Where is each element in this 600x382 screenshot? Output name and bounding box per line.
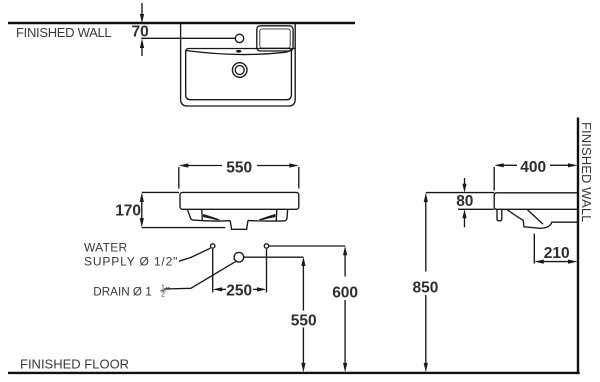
front view bowl bottom left — [194, 219, 231, 222]
svg-text:": " — [166, 284, 171, 298]
drain leader line — [164, 261, 236, 289]
plan view deck box outer (top right) — [257, 26, 293, 51]
front view trap — [230, 220, 248, 229]
drain hole circle — [234, 252, 244, 262]
dim 170 top extension line — [142, 191, 179, 193]
finished floor line — [8, 372, 580, 374]
svg-text:210: 210 — [544, 245, 570, 262]
finished wall line (top) — [8, 22, 355, 24]
svg-text:FINISHED FLOOR: FINISHED FLOOR — [20, 356, 129, 371]
svg-text:DRAIN Ø 1: DRAIN Ø 1 — [93, 285, 151, 298]
plan view faucet hole — [235, 34, 243, 42]
svg-text:FINISHED WALL: FINISHED WALL — [16, 25, 111, 40]
water supply hole left — [211, 244, 215, 248]
side view internal diagonal — [528, 210, 543, 224]
dim 850 top extension to side view — [426, 192, 494, 194]
water supply leader line — [179, 248, 211, 261]
svg-text:850: 850 — [413, 280, 439, 297]
dim 250 line with arrows — [213, 287, 267, 291]
front view bowl bottom right — [248, 219, 284, 222]
svg-text:FINISHED WALL: FINISHED WALL — [579, 122, 594, 223]
svg-text:SUPPLY Ø 1/2": SUPPLY Ø 1/2" — [84, 254, 178, 268]
dim 400 line with arrows — [494, 163, 577, 167]
water supply hole right — [264, 244, 268, 248]
dim 400 left extension line — [493, 167, 495, 191]
dim 170 vertical line with arrows — [140, 192, 144, 227]
extension line from 70 to faucet hole — [141, 37, 235, 39]
front view right foot inner edge — [275, 210, 278, 221]
dim 550 right extension line — [298, 167, 300, 189]
dim 550 left extension line — [178, 167, 180, 189]
plan view outer rim — [181, 24, 296, 107]
dimension 70 lower arrow — [140, 38, 144, 56]
dim 210 extension line — [533, 234, 535, 264]
svg-text:170: 170 — [115, 202, 141, 219]
front view slab — [180, 192, 299, 209]
plan view basin sides and bottom — [186, 49, 292, 100]
front view left foot inner edge — [201, 210, 204, 221]
plan view basin rim straight edge — [186, 49, 295, 53]
finished wall line (right) — [577, 118, 579, 375]
side view drain boss — [523, 220, 577, 228]
side view bowl underside curve — [507, 209, 524, 220]
dim 600 vertical line — [343, 246, 347, 373]
svg-text:WATER: WATER — [84, 241, 128, 255]
svg-text:550: 550 — [226, 159, 252, 176]
svg-text:2: 2 — [161, 292, 165, 299]
plan view basin front curve — [186, 49, 292, 55]
front view left foot outer edge — [188, 210, 194, 221]
plan view deck box inner line — [260, 29, 290, 48]
svg-text:80: 80 — [456, 193, 473, 210]
dim 210 line with arrows — [534, 260, 577, 264]
front view left chevron wedge — [203, 214, 219, 220]
plan view drain inner circle — [235, 66, 244, 75]
horizontal line from right supply hole to dim 600 — [269, 245, 345, 247]
dim 80 upper arrow — [462, 178, 466, 193]
dim 850 vertical line — [424, 193, 428, 373]
dim 80 lower arrow — [462, 209, 466, 227]
plan view faucet dash marker — [236, 50, 242, 53]
dim 550 line with arrows — [179, 163, 299, 167]
dim 170 bottom extension line — [142, 227, 226, 229]
side view front tab — [497, 209, 502, 221]
front view right foot outer edge — [284, 210, 288, 221]
svg-text:550: 550 — [291, 312, 317, 329]
dimension 70 upper arrow — [140, 3, 144, 24]
horizontal line from drain to dim 550 — [244, 256, 304, 258]
dim 550 vertical line — [301, 257, 305, 373]
extension line below left supply hole — [212, 249, 214, 293]
svg-text:600: 600 — [332, 284, 358, 301]
svg-text:400: 400 — [520, 159, 546, 176]
svg-text:250: 250 — [226, 283, 252, 300]
extension line below right supply hole — [266, 249, 268, 293]
side view slab — [494, 193, 577, 210]
dim 80 bottom extension line — [458, 208, 494, 210]
plan view drain outer circle — [232, 63, 247, 78]
front view right chevron wedge — [259, 214, 275, 220]
